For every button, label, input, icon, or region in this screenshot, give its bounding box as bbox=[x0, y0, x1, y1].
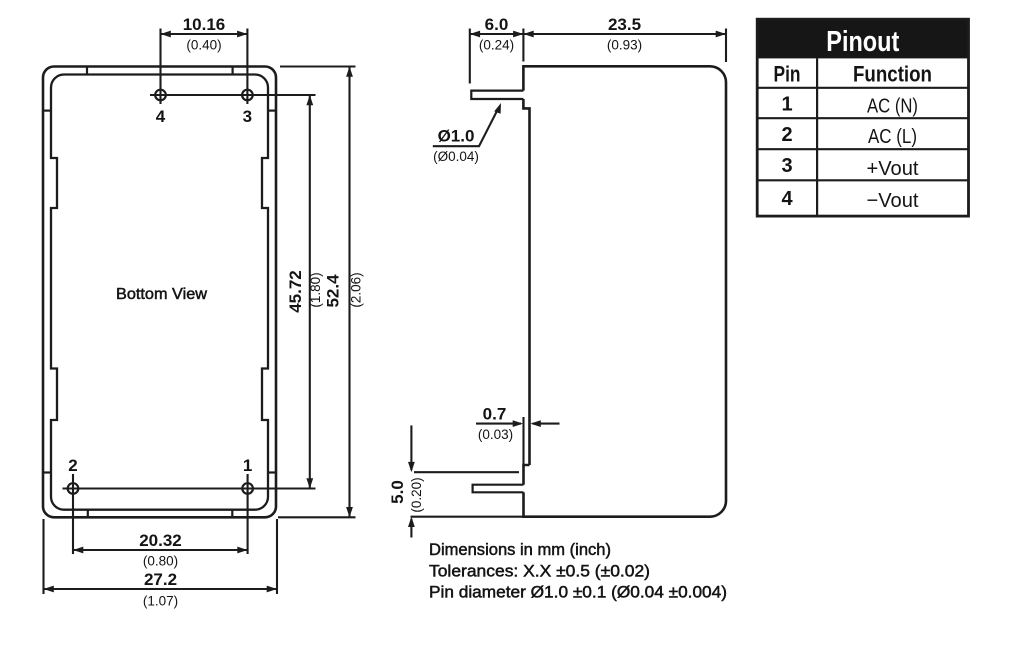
svg-text:AC (N): AC (N) bbox=[867, 95, 918, 118]
svg-text:(1.80): (1.80) bbox=[308, 272, 323, 307]
bottom view outer case outline bbox=[43, 67, 276, 518]
case parting tick right upper bbox=[268, 109, 276, 111]
svg-text:45.72: 45.72 bbox=[286, 270, 305, 313]
svg-text:27.2: 27.2 bbox=[144, 570, 177, 589]
extension line 23.5 right bbox=[725, 29, 727, 63]
pin 4 vertical crosshair / extension line bbox=[159, 29, 161, 105]
case parting tick top left bbox=[86, 67, 88, 75]
dimension 10.16 line with arrows bbox=[161, 33, 248, 35]
svg-text:−Vout: −Vout bbox=[867, 189, 919, 212]
svg-text:AC (L): AC (L) bbox=[868, 125, 917, 148]
svg-text:Bottom View: Bottom View bbox=[116, 286, 207, 303]
extension line for 27.2 right bbox=[276, 519, 278, 594]
case parting tick bottom left bbox=[87, 510, 89, 518]
dimension 5.0 upper arrow line bbox=[410, 425, 412, 470]
pin 3 vertical crosshair / extension line bbox=[246, 29, 248, 105]
svg-text:6.0: 6.0 bbox=[485, 15, 509, 34]
extension line 5.0 bottom (case bottom, extends left) bbox=[411, 516, 524, 518]
svg-text:20.32: 20.32 bbox=[139, 531, 182, 550]
svg-text:4: 4 bbox=[156, 107, 166, 126]
svg-text:1: 1 bbox=[243, 456, 252, 475]
top pin row centerline through pins 4 and 3 bbox=[150, 94, 316, 96]
svg-text:5.0: 5.0 bbox=[388, 480, 407, 504]
pin 1 circle bbox=[242, 483, 253, 494]
svg-text:10.16: 10.16 bbox=[183, 15, 226, 34]
case parting tick left lower bbox=[43, 471, 51, 473]
pin 4 circle bbox=[155, 90, 166, 101]
svg-text:4: 4 bbox=[781, 188, 793, 210]
extension line for 27.2 left bbox=[42, 519, 44, 594]
extension line shared (body left edge) bbox=[522, 29, 524, 62]
case parting tick right lower bbox=[268, 471, 276, 473]
pin 3 circle bbox=[242, 90, 253, 101]
svg-text:(2.06): (2.06) bbox=[349, 272, 364, 307]
side view bottom pin (pin outline) bbox=[473, 485, 524, 493]
case parting tick bottom right bbox=[231, 510, 233, 518]
table grid row line 4 bbox=[757, 179, 968, 181]
svg-text:(Ø0.04): (Ø0.04) bbox=[433, 149, 479, 164]
dimension 45.72 vertical line with arrows bbox=[309, 95, 311, 489]
dimension 20.32 line with arrows bbox=[73, 549, 248, 551]
svg-text:(0.80): (0.80) bbox=[143, 554, 178, 569]
svg-text:3: 3 bbox=[781, 155, 792, 177]
svg-text:Tolerances: X.X ±0.5 (±0.02): Tolerances: X.X ±0.5 (±0.02) bbox=[429, 563, 650, 581]
side view top pin (pin outline) bbox=[471, 91, 523, 99]
leader line for pin diameter callout bbox=[433, 108, 499, 146]
svg-text:Pinout: Pinout bbox=[826, 26, 899, 58]
dimension 0.7 left arrow line bbox=[476, 423, 521, 425]
side view body outline bbox=[523, 66, 726, 516]
svg-text:1: 1 bbox=[781, 94, 792, 116]
svg-text:Pin diameter Ø1.0 ±0.1 (Ø0.04: Pin diameter Ø1.0 ±0.1 (Ø0.04 ±0.004) bbox=[429, 584, 727, 602]
dimension 0.7 right arrow line bbox=[533, 423, 560, 425]
extension line 6.0 left (pin tip) bbox=[469, 29, 471, 84]
table grid row line 1 bbox=[757, 87, 968, 89]
dimension 5.0 lower arrow line bbox=[410, 519, 412, 538]
svg-text:Dimensions in mm (inch): Dimensions in mm (inch) bbox=[429, 541, 611, 559]
pin 2 circle bbox=[68, 483, 79, 494]
dimension 23.5 line with arrows bbox=[523, 33, 726, 35]
dimension 6.0 line with arrows bbox=[470, 33, 524, 35]
svg-text:Function: Function bbox=[853, 62, 932, 87]
svg-text:(0.03): (0.03) bbox=[478, 427, 513, 442]
case parting tick top right bbox=[232, 67, 234, 75]
svg-text:(1.07): (1.07) bbox=[143, 594, 178, 609]
pinout table outer border bbox=[757, 19, 968, 216]
svg-text:(0.40): (0.40) bbox=[186, 38, 221, 53]
svg-text:0.7: 0.7 bbox=[483, 405, 507, 424]
svg-text:Ø1.0: Ø1.0 bbox=[438, 127, 475, 146]
pin 2 vertical crosshair / extension line bbox=[72, 474, 74, 554]
svg-text:(0.93): (0.93) bbox=[607, 38, 642, 53]
bottom view inner case outline bbox=[51, 75, 268, 510]
svg-text:+Vout: +Vout bbox=[867, 157, 919, 180]
svg-text:(0.20): (0.20) bbox=[409, 477, 424, 512]
svg-text:2: 2 bbox=[68, 456, 77, 475]
dimension 27.2 line with arrows bbox=[44, 588, 278, 590]
table column divider bbox=[816, 58, 818, 216]
svg-text:23.5: 23.5 bbox=[608, 15, 641, 34]
svg-text:(0.24): (0.24) bbox=[479, 38, 514, 53]
svg-text:Pin: Pin bbox=[774, 62, 801, 87]
extension line 0.7 (standoff lip) bbox=[522, 417, 524, 465]
dimension 52.4 vertical line with arrows bbox=[348, 67, 350, 518]
case parting tick left upper bbox=[43, 109, 51, 111]
svg-text:52.4: 52.4 bbox=[324, 274, 343, 308]
pin 1 vertical crosshair / extension line bbox=[247, 474, 249, 554]
pinout table header bar bbox=[757, 19, 968, 58]
svg-text:2: 2 bbox=[781, 124, 792, 146]
extension line 5.0 top (seating plane) bbox=[414, 471, 519, 473]
table grid row line 2 bbox=[757, 117, 968, 119]
table grid row line 3 bbox=[757, 148, 968, 150]
svg-text:3: 3 bbox=[243, 107, 252, 126]
extension line for 52.4 top bbox=[280, 65, 356, 67]
bottom pin row centerline through pins 2 and 1 bbox=[63, 487, 316, 489]
extension line for 52.4 bottom bbox=[278, 516, 356, 518]
